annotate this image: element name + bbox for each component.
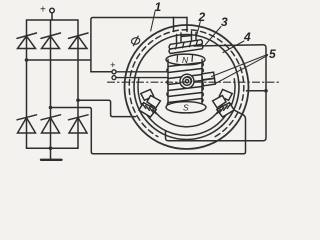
svg-text:5: 5 (269, 47, 276, 61)
diode VD1 (top row) (17, 33, 37, 49)
stator winding output wires right side (166, 45, 268, 141)
rotor winding edge hooks (202, 63, 203, 103)
flux label (131, 36, 141, 47)
svg-text:4: 4 (243, 30, 251, 44)
diode VD6 (bottom row) (69, 115, 89, 133)
brush terminal circle 2 (112, 76, 116, 80)
wire leg3 tap staircase to bottom-left pole (78, 100, 136, 116)
pole coil upper block (219, 89, 232, 100)
node leg2 tap (49, 106, 53, 110)
stator inner circle (134, 35, 239, 140)
ground (41, 148, 62, 160)
svg-text:3: 3 (221, 15, 228, 29)
brush lower (203, 78, 216, 85)
top bus (+) (27, 19, 79, 21)
diode VD3 (top row) (69, 33, 89, 49)
wire terminal stem (51, 13, 53, 20)
rotor winding turns (168, 63, 202, 108)
bottom-left stator pole (139, 89, 161, 117)
diode VD5 (bottom row) (41, 115, 61, 133)
node ground junction (49, 146, 53, 150)
rotor top ellipse N pole (166, 54, 205, 65)
flux symbol Ф (131, 37, 141, 45)
rotor body whiteout (168, 56, 202, 108)
wire leg2 tap down and along bottom to bottom-right pole (51, 105, 246, 154)
diode VD4 (bottom row) (17, 115, 37, 133)
stator winding dashed circle (129, 30, 244, 137)
brush upper (202, 72, 215, 80)
field coil on top pole (label 3) (169, 40, 203, 54)
wire brush lead right (247, 90, 267, 92)
svg-text:2: 2 (198, 10, 206, 24)
slip ring / shaft (180, 74, 194, 88)
pole core hatched (139, 103, 156, 117)
rectifier bridge leg 3 (77, 20, 79, 148)
brush terminal circle 1 (112, 70, 116, 74)
+ terminal circle (50, 8, 55, 13)
wire leg1 tap to vertical A (27, 59, 91, 61)
bottom bus (27, 147, 79, 149)
rotor bottom ellipse S pole (166, 102, 206, 113)
field terminals and wires (108, 60, 282, 82)
svg-text:+: + (40, 5, 46, 16)
wire terminal 2 to rotor (116, 77, 168, 79)
top pole neck (177, 32, 197, 43)
wire from top coil to right vertical, down, along bottom, up to circle (166, 45, 267, 141)
svg-text:+: + (110, 60, 116, 71)
wire vertical A to field + terminal (91, 71, 112, 73)
alternator stator rings (125, 25, 249, 149)
stator top terminal tab (174, 17, 188, 31)
callout labels (151, 0, 276, 85)
axis dash-dot center line (108, 81, 282, 83)
pole core hatched (217, 103, 234, 117)
stator bore arc (138, 79, 235, 136)
bottom-right stator pole (213, 89, 235, 117)
diode VD2 (top row) (41, 33, 61, 49)
rectifier bridge leg 1 (26, 20, 28, 148)
wire terminal 1 to rotor (116, 71, 168, 73)
pole face arc (150, 104, 222, 127)
rotor cylinder sides (167, 60, 169, 106)
svg-text:1: 1 (155, 0, 162, 14)
pole coil upper block (141, 89, 154, 100)
rectifier bridge leg 2 (50, 20, 52, 148)
node leg3 tap (76, 98, 80, 102)
pole shoe (213, 96, 226, 108)
wire vertical A top corner to stator top pole (91, 18, 187, 72)
svg-text:N: N (182, 55, 189, 65)
stator outer circle (125, 25, 249, 149)
pole shoe (147, 96, 160, 108)
rotor assembly (166, 54, 215, 113)
svg-text:S: S (183, 103, 189, 113)
node leg1 tap (25, 58, 29, 62)
node on right vertical (264, 89, 268, 93)
